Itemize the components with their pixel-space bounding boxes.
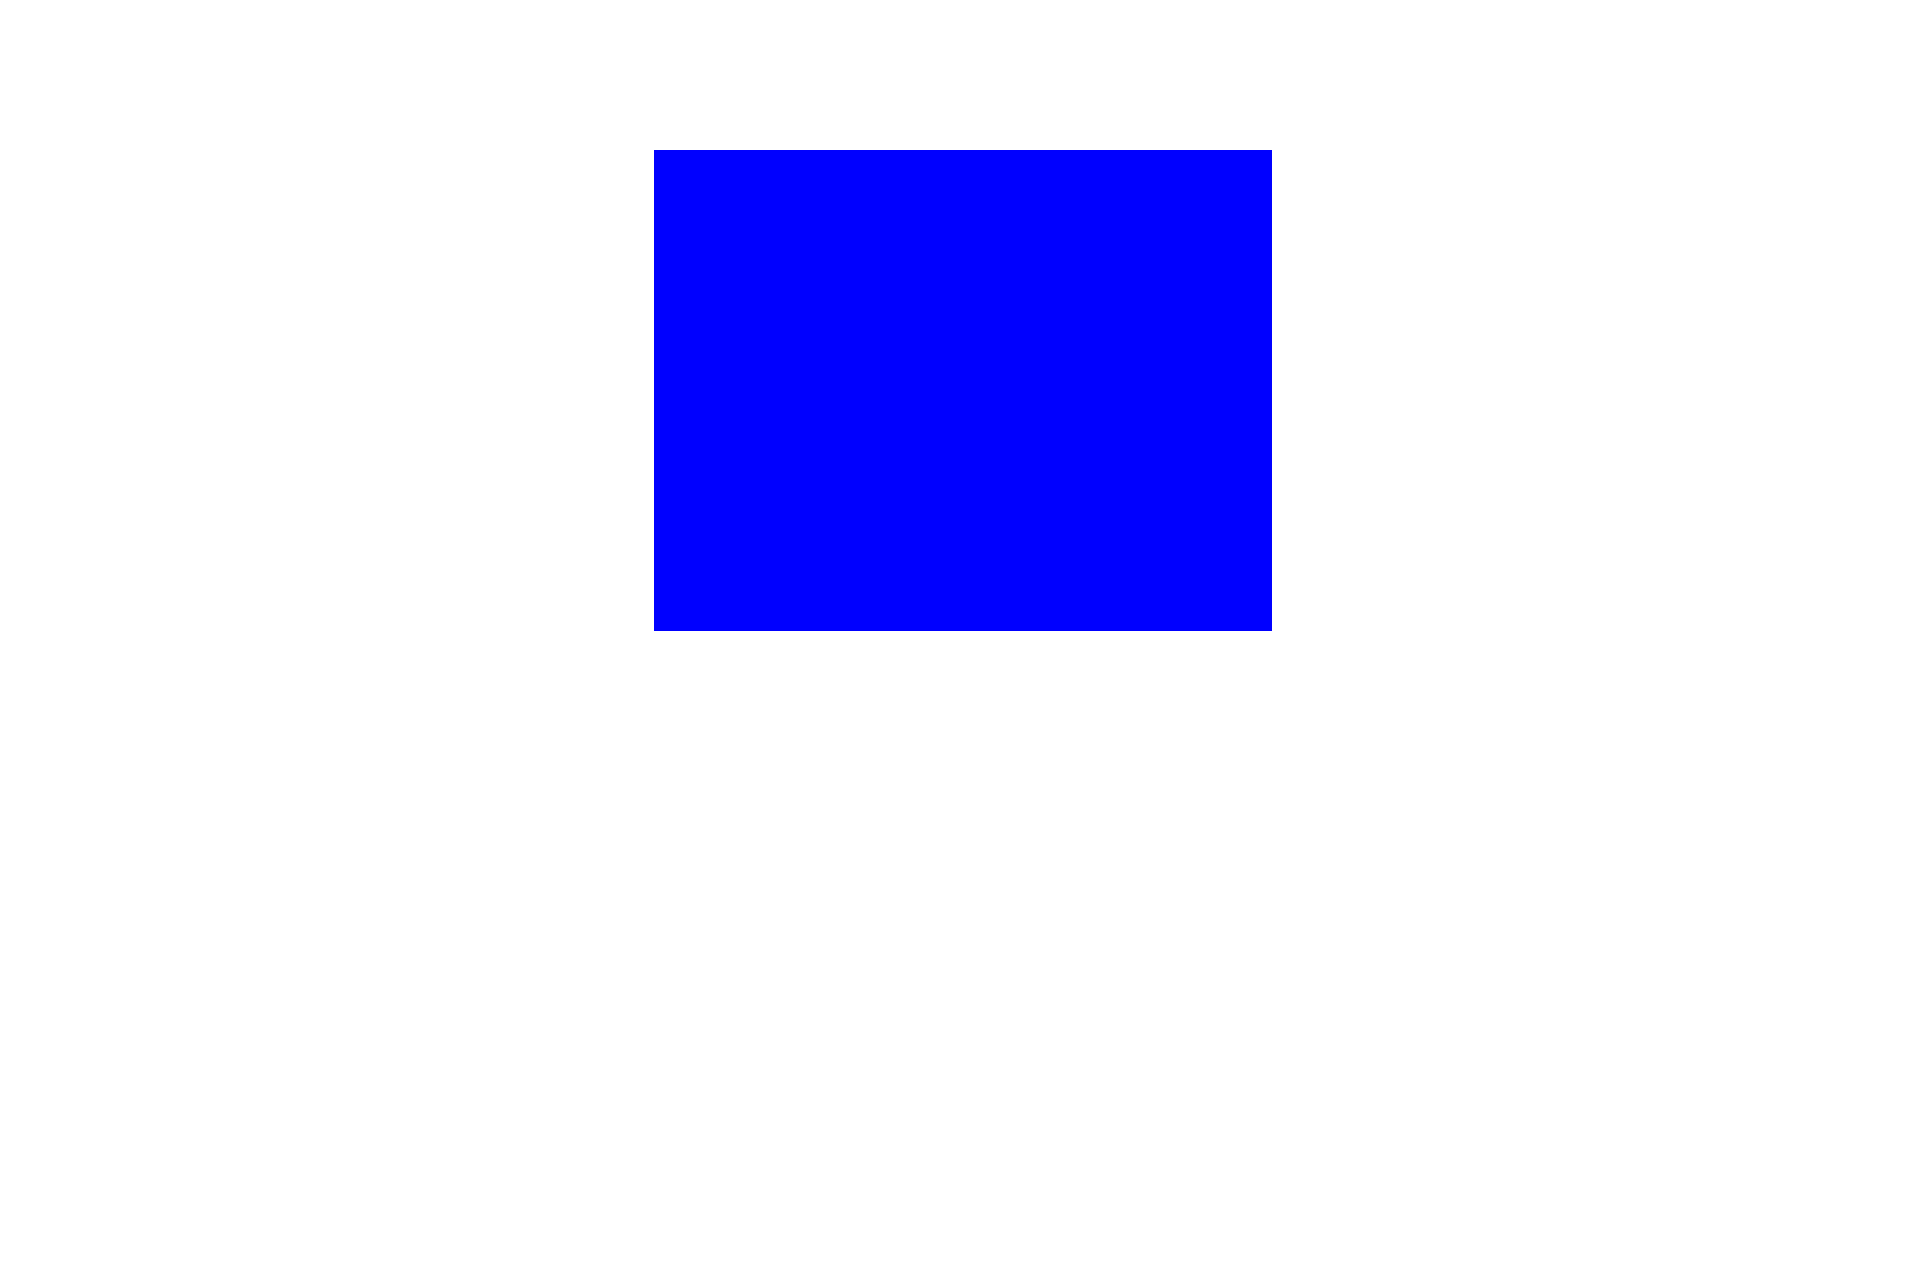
blue rectangle	[654, 150, 1272, 631]
